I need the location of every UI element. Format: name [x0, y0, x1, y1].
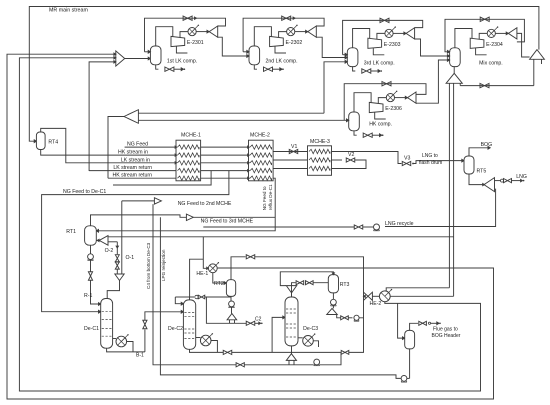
- svg-text:MR main stream: MR main stream: [49, 8, 88, 14]
- svg-text:E-2302: E-2302: [286, 40, 303, 46]
- svg-text:LK stream in: LK stream in: [121, 157, 150, 163]
- svg-text:V1: V1: [291, 144, 297, 150]
- svg-text:NG Feed to: NG Feed to: [262, 186, 267, 210]
- svg-text:V2: V2: [348, 152, 354, 158]
- svg-text:2nd LK comp.: 2nd LK comp.: [266, 59, 298, 65]
- svg-text:LNG to: LNG to: [422, 153, 438, 159]
- svg-text:BOG: BOG: [481, 142, 493, 148]
- svg-text:RT3: RT3: [340, 282, 350, 288]
- svg-text:MCHE-3: MCHE-3: [310, 139, 330, 145]
- svg-text:3rd LK comp.: 3rd LK comp.: [364, 60, 395, 66]
- svg-text:RT5: RT5: [477, 169, 487, 175]
- svg-text:HE-1: HE-1: [196, 271, 208, 277]
- svg-text:BOG Header: BOG Header: [432, 333, 461, 339]
- svg-text:De-C2: De-C2: [168, 326, 183, 332]
- svg-text:O-1: O-1: [126, 255, 135, 261]
- svg-text:NG Feed to De-C1: NG Feed to De-C1: [63, 189, 106, 195]
- svg-text:De-C3: De-C3: [303, 326, 318, 332]
- svg-text:RT4: RT4: [48, 140, 58, 146]
- svg-text:E-2306: E-2306: [385, 106, 402, 112]
- svg-text:Flue gas to: Flue gas to: [433, 327, 458, 333]
- svg-text:flash drum: flash drum: [419, 160, 442, 166]
- svg-text:E-2301: E-2301: [187, 40, 204, 46]
- svg-text:LPG reinjection: LPG reinjection: [161, 249, 166, 281]
- svg-text:E-2303: E-2303: [384, 42, 401, 48]
- svg-text:V3: V3: [404, 156, 410, 162]
- svg-text:NG Feed to 3rd MCHE: NG Feed to 3rd MCHE: [201, 218, 254, 224]
- svg-text:HK stream in: HK stream in: [118, 150, 148, 156]
- svg-text:O-2: O-2: [105, 248, 114, 254]
- svg-text:reflux De-C1: reflux De-C1: [268, 184, 273, 210]
- svg-text:C4 from bottom De-C3: C4 from bottom De-C3: [146, 242, 151, 289]
- svg-text:R-1: R-1: [84, 293, 92, 299]
- svg-text:C2: C2: [255, 317, 262, 323]
- svg-text:E-2304: E-2304: [486, 42, 503, 48]
- svg-text:RT2: RT2: [214, 281, 224, 287]
- svg-text:NG Feed to 2nd MCHE: NG Feed to 2nd MCHE: [178, 201, 232, 207]
- svg-text:MCHE-2: MCHE-2: [250, 133, 270, 139]
- svg-text:LNG recycle: LNG recycle: [385, 221, 414, 227]
- svg-text:1st LK comp.: 1st LK comp.: [167, 59, 197, 65]
- svg-text:HK comp.: HK comp.: [369, 122, 392, 128]
- svg-text:LNG: LNG: [516, 174, 527, 180]
- svg-text:RT1: RT1: [66, 229, 76, 235]
- svg-text:B-1: B-1: [136, 353, 144, 359]
- svg-text:HE-2: HE-2: [370, 301, 382, 307]
- svg-text:MCHE-1: MCHE-1: [181, 133, 201, 139]
- svg-text:Mix comp.: Mix comp.: [479, 60, 503, 66]
- svg-text:De-C1: De-C1: [84, 326, 99, 332]
